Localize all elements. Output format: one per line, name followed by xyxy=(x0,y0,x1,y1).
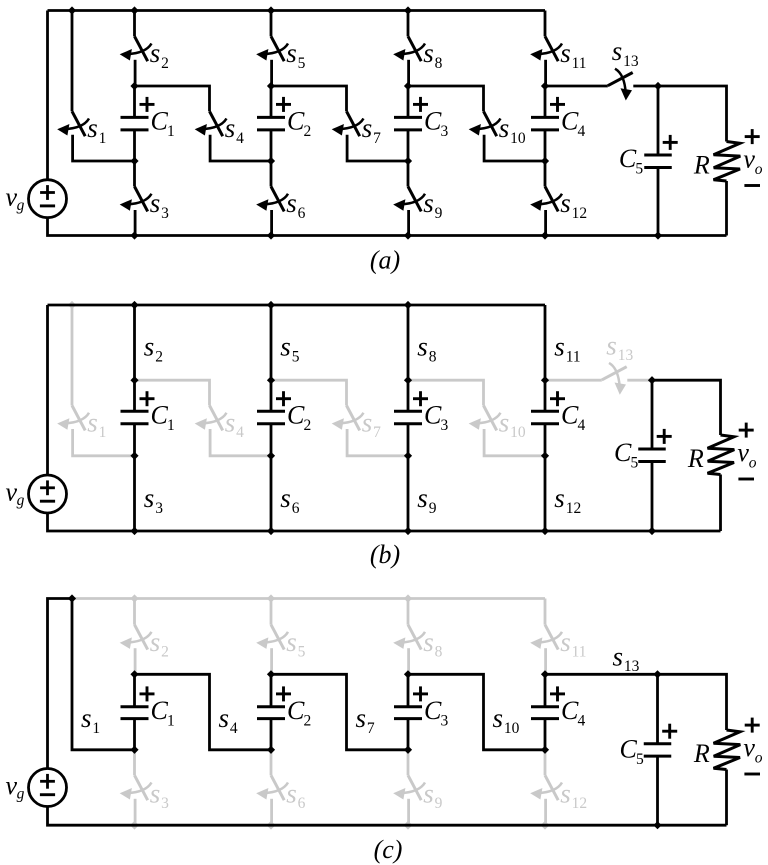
node bottom rail C4 (a) xyxy=(541,231,549,239)
svg-text:8: 8 xyxy=(435,55,443,72)
wire s11 bottom lead (a) xyxy=(544,60,547,86)
wire s12 top lead (a) xyxy=(544,161,547,187)
wire s7 bottom lead (a) xyxy=(347,135,408,161)
wire s2 closed + C1 column (b) xyxy=(133,305,136,411)
label s13 (c) xyxy=(613,641,640,675)
polarity plus C3 (c) xyxy=(413,686,428,701)
node bottom rail C1 (b) xyxy=(130,527,138,535)
node C4 bottom (c) xyxy=(541,746,549,754)
svg-text:g: g xyxy=(17,786,25,803)
polarity plus vo (a) xyxy=(745,129,760,144)
node C4 bottom (b) xyxy=(541,452,549,460)
label s3 (c) xyxy=(150,778,169,812)
svg-text:10: 10 xyxy=(510,130,526,147)
wire R top lead (c) xyxy=(658,674,727,730)
svg-text:s: s xyxy=(356,703,367,733)
label C5 (c) xyxy=(620,735,645,769)
node C3 bottom (c) xyxy=(404,746,412,754)
svg-text:3: 3 xyxy=(441,417,449,434)
node top rail C2 (a) xyxy=(267,6,275,14)
svg-text:C: C xyxy=(620,735,638,764)
label s9 (a) xyxy=(423,188,442,222)
switch s3 xyxy=(120,187,152,212)
svg-text:13: 13 xyxy=(624,658,640,675)
label s7 (a) xyxy=(362,113,381,147)
svg-text:s: s xyxy=(144,483,155,513)
label s2 (b) xyxy=(144,332,163,366)
node bottom rail C4 open (c) xyxy=(541,821,550,830)
switch s10 xyxy=(469,111,501,136)
wire C3 bottom lead (a) xyxy=(407,130,410,161)
wire C2 bottom lead (a) xyxy=(270,130,273,161)
resistor R (b) xyxy=(708,435,735,475)
wire s10 top lead open (b) xyxy=(408,380,484,405)
wire s5 bottom lead (a) xyxy=(270,60,273,86)
wire s5 bottom lead open (c) xyxy=(270,648,273,674)
capacitor C4 xyxy=(531,117,559,129)
switch s2 open (c) xyxy=(120,625,152,650)
label s4 (a) xyxy=(225,113,244,147)
wire s3 bottom lead open (c) xyxy=(134,799,137,825)
svg-text:C: C xyxy=(561,696,579,725)
svg-text:12: 12 xyxy=(572,205,588,222)
svg-text:s: s xyxy=(81,703,92,733)
wire C3 bottom lead (c) xyxy=(407,719,410,750)
node top rail C3 open (c) xyxy=(404,594,412,602)
svg-text:13: 13 xyxy=(623,53,639,70)
label vo (c) xyxy=(743,733,762,766)
label s2 (c) xyxy=(150,627,169,661)
switch s11 open (c) xyxy=(530,625,562,650)
wire vg branch (a) xyxy=(46,11,49,180)
wire top rail open (c) xyxy=(72,597,545,600)
wire s2 bottom lead open (c) xyxy=(134,648,137,674)
label vg (c) xyxy=(6,771,25,803)
node C5 top (c) xyxy=(653,670,661,678)
wire top rail (a) xyxy=(48,9,546,12)
svg-text:s: s xyxy=(613,641,624,671)
svg-text:g: g xyxy=(17,197,25,214)
node C1 bottom (a) xyxy=(130,157,138,165)
svg-text:s: s xyxy=(423,627,434,657)
capacitor C1 (b) xyxy=(121,411,149,423)
svg-text:s: s xyxy=(554,332,565,362)
node bottom rail C2 open (c) xyxy=(267,821,276,830)
svg-text:s: s xyxy=(499,407,510,437)
wire C4 top lead (c) xyxy=(544,674,547,707)
switch s1 open (b) xyxy=(57,406,89,431)
label vg (a) xyxy=(6,182,25,214)
svg-text:s: s xyxy=(150,778,161,808)
svg-text:s: s xyxy=(554,483,565,513)
svg-text:4: 4 xyxy=(236,130,244,147)
polarity plus C2 (c) xyxy=(276,686,291,701)
capacitor C2 (b) xyxy=(257,411,285,423)
wire s4 bottom lead (a) xyxy=(210,135,271,161)
wire s13 right lead (a) xyxy=(633,85,658,88)
node bottom rail C2 (a) xyxy=(267,231,275,239)
label s10 (b) xyxy=(499,407,526,441)
svg-text:5: 5 xyxy=(631,455,639,472)
switch s10 open (b) xyxy=(469,406,501,431)
label s2 (a) xyxy=(150,38,169,72)
svg-text:3: 3 xyxy=(441,123,449,140)
wire C4 bottom lead (a) xyxy=(544,130,547,161)
polarity plus C4 (a) xyxy=(550,97,565,112)
label s5 (c) xyxy=(286,627,305,661)
wire s8 bottom lead open (c) xyxy=(407,648,410,674)
svg-text:10: 10 xyxy=(504,720,520,737)
node s1 top (a) xyxy=(68,6,76,14)
label s11 (a) xyxy=(560,38,586,72)
node C5 bottom (b) xyxy=(648,527,656,535)
label vo (a) xyxy=(743,144,762,177)
svg-text:s: s xyxy=(560,627,571,657)
svg-text:11: 11 xyxy=(572,55,587,72)
svg-text:6: 6 xyxy=(292,500,300,517)
label s4 (c) xyxy=(219,703,238,737)
label s1 (c) xyxy=(81,703,100,737)
svg-text:13: 13 xyxy=(618,347,634,364)
wire C1 bottom lead (a) xyxy=(133,130,136,161)
wire s10 closed (c) xyxy=(408,674,545,750)
svg-text:2: 2 xyxy=(155,349,163,366)
polarity plus C3 (b) xyxy=(413,391,428,406)
wire s13 left lead open (b) xyxy=(545,379,602,382)
label C4 (a) xyxy=(561,107,586,141)
wire s10 bottom lead open (b) xyxy=(484,429,545,456)
label s12 (a) xyxy=(560,188,587,222)
label s4 (b) xyxy=(225,407,244,441)
wire R bottom lead (b) xyxy=(719,475,722,532)
node C2 bottom (c) xyxy=(267,746,275,754)
polarity plus C2 (b) xyxy=(276,391,291,406)
polarity plus C1 (b) xyxy=(140,391,155,406)
wire C4 top lead (a) xyxy=(544,86,547,117)
wire C4 bottom lead (c) xyxy=(544,719,547,750)
switch s13 open (b) xyxy=(602,363,627,395)
label s1 (b) xyxy=(87,407,106,441)
node top rail C2 open (c) xyxy=(267,594,275,602)
wire C1 top lead (c) xyxy=(133,674,136,707)
polarity plus C4 (b) xyxy=(550,391,565,406)
wire C5 bottom lead (a) xyxy=(657,167,660,235)
svg-text:o: o xyxy=(755,749,763,766)
svg-text:8: 8 xyxy=(429,349,437,366)
wire C5 top lead (c) xyxy=(656,674,659,743)
wire C3 top lead (c) xyxy=(407,674,410,707)
wire bottom rail (b) xyxy=(48,513,721,531)
wire C2 top lead (c) xyxy=(270,674,273,707)
svg-text:s: s xyxy=(225,113,236,143)
svg-text:s: s xyxy=(560,778,571,808)
label C5 (a) xyxy=(619,144,644,178)
switch s12 xyxy=(530,187,562,212)
wire s13 left lead (a) xyxy=(545,85,608,88)
svg-text:9: 9 xyxy=(435,205,443,222)
label C2 (a) xyxy=(287,107,311,141)
source vg (a) xyxy=(29,180,67,218)
svg-text:C: C xyxy=(151,107,169,136)
resistor R xyxy=(714,142,741,182)
wire s12 bottom lead (a) xyxy=(544,210,547,236)
node C1 top (a) xyxy=(130,82,138,90)
svg-text:s: s xyxy=(499,113,510,143)
node bottom rail C2 (b) xyxy=(267,527,275,535)
node C4 top (c) xyxy=(541,670,549,678)
svg-text:3: 3 xyxy=(441,713,449,730)
node C2 top (a) xyxy=(267,82,275,90)
label C1 (b) xyxy=(151,401,175,435)
wire s1 to C1 bottom (a) xyxy=(73,135,135,161)
svg-text:1: 1 xyxy=(167,123,175,140)
svg-text:s: s xyxy=(423,188,434,218)
wire s2 top lead open (c) xyxy=(133,599,136,625)
wire s10 top lead (a) xyxy=(408,86,484,111)
svg-text:C: C xyxy=(424,401,442,430)
wire C1 top lead (a) xyxy=(133,86,136,117)
polarity plus C2 (a) xyxy=(276,97,291,112)
capacitor C5 (b) xyxy=(638,449,666,461)
node top rail C2 (b) xyxy=(267,301,275,309)
svg-text:v: v xyxy=(743,733,755,762)
node top rail C1 (a) xyxy=(130,6,138,14)
label s9 (c) xyxy=(423,778,442,812)
wire s8 top lead (a) xyxy=(407,11,410,37)
svg-text:4: 4 xyxy=(230,720,238,737)
wire s9 closed column (b) xyxy=(407,424,410,531)
label s5 (a) xyxy=(286,38,305,72)
svg-text:9: 9 xyxy=(435,795,443,812)
capacitor C5 (c) xyxy=(644,744,672,756)
label C3 (a) xyxy=(424,107,449,141)
wire C5 bottom lead (b) xyxy=(651,461,654,531)
label s5 (b) xyxy=(280,332,299,366)
node s1 top rail open (b) xyxy=(68,301,76,309)
label s3 (a) xyxy=(150,188,169,222)
capacitor C4 (b) xyxy=(531,411,559,423)
wire s3 top lead (a) xyxy=(133,161,136,187)
label s1 (a) xyxy=(87,113,106,147)
wire s12 bottom lead open (c) xyxy=(544,799,547,825)
wire R top lead (a) xyxy=(658,86,727,142)
svg-text:o: o xyxy=(749,454,757,471)
node top rail C1 open (c) xyxy=(130,594,138,602)
switch s12 open (c) xyxy=(530,775,562,800)
wire s12 top lead open (c) xyxy=(544,750,547,776)
polarity minus vo (a) xyxy=(744,184,760,187)
svg-text:7: 7 xyxy=(373,424,381,441)
label C3 (b) xyxy=(424,401,449,435)
node C1 bottom (b) xyxy=(130,452,138,460)
svg-text:1: 1 xyxy=(167,713,175,730)
wire s10 bottom lead (a) xyxy=(484,135,545,161)
svg-text:R: R xyxy=(693,151,710,180)
wire bottom rail (c) xyxy=(48,807,727,826)
svg-text:C: C xyxy=(614,438,632,467)
svg-text:v: v xyxy=(737,438,749,467)
svg-text:s: s xyxy=(423,38,434,68)
label s12 (c) xyxy=(560,778,587,812)
svg-text:10: 10 xyxy=(510,424,526,441)
svg-text:1: 1 xyxy=(92,720,100,737)
switch s8 xyxy=(393,36,425,61)
wire s1 top lead (a) xyxy=(71,11,74,112)
wire s7 closed (c) xyxy=(271,674,408,750)
svg-text:s: s xyxy=(87,407,98,437)
wire s1 top lead open (b) xyxy=(71,305,74,406)
svg-text:s: s xyxy=(286,188,297,218)
svg-text:s: s xyxy=(225,407,236,437)
label C1 (a) xyxy=(151,107,175,141)
svg-text:C: C xyxy=(561,107,579,136)
source vg (b) xyxy=(29,475,67,513)
svg-text:C: C xyxy=(287,401,305,430)
svg-text:s: s xyxy=(219,703,230,733)
capacitor C2 (c) xyxy=(257,707,285,719)
wire s7 bottom lead open (b) xyxy=(347,429,408,456)
svg-text:(a): (a) xyxy=(370,246,400,275)
wire s12 closed column (b) xyxy=(544,424,547,531)
svg-text:C: C xyxy=(561,401,579,430)
node C2 top (c) xyxy=(267,670,275,678)
wire s7 top lead open (b) xyxy=(271,380,347,405)
svg-text:6: 6 xyxy=(298,795,306,812)
svg-text:s: s xyxy=(280,483,291,513)
svg-text:2: 2 xyxy=(161,644,169,661)
svg-text:s: s xyxy=(286,627,297,657)
svg-text:s: s xyxy=(417,332,428,362)
svg-text:2: 2 xyxy=(304,417,312,434)
node C1 top (c) xyxy=(130,670,138,678)
node C5 top (b) xyxy=(648,376,656,384)
polarity plus C4 (c) xyxy=(550,686,565,701)
wire s8 top lead open (c) xyxy=(407,599,410,625)
wire s5 top lead open (c) xyxy=(270,599,273,625)
wire s9 bottom lead open (c) xyxy=(407,799,410,825)
wire s9 top lead (a) xyxy=(407,161,410,187)
svg-text:o: o xyxy=(755,161,763,178)
svg-text:4: 4 xyxy=(578,123,586,140)
capacitor C3 (b) xyxy=(394,411,422,423)
svg-text:2: 2 xyxy=(304,713,312,730)
svg-text:s: s xyxy=(417,483,428,513)
switch s7 open (b) xyxy=(332,406,364,431)
label C3 (c) xyxy=(424,696,449,730)
node bottom rail C3 (a) xyxy=(404,231,412,239)
wire R top lead (b) xyxy=(652,380,721,435)
svg-text:C: C xyxy=(424,107,442,136)
source vg (c) xyxy=(29,769,67,807)
wire s4 top lead (a) xyxy=(135,86,210,111)
svg-text:4: 4 xyxy=(236,424,244,441)
label s8 (c) xyxy=(423,627,442,661)
svg-text:7: 7 xyxy=(373,130,381,147)
svg-text:11: 11 xyxy=(572,644,587,661)
node C1 top (b) xyxy=(130,376,138,384)
label s10 (a) xyxy=(499,113,526,147)
label s11 (c) xyxy=(560,627,586,661)
wire s8 closed + C3 column (b) xyxy=(407,305,410,411)
label vo (b) xyxy=(737,438,756,471)
switch s4 open (b) xyxy=(195,406,227,431)
capacitor C1 (c) xyxy=(121,707,149,719)
wire C3 top lead (a) xyxy=(407,86,410,117)
node top rail C1 (b) xyxy=(130,301,138,309)
svg-text:v: v xyxy=(743,144,755,173)
wire s11 top lead (a) xyxy=(544,11,547,37)
capacitor C3 xyxy=(394,117,422,129)
switch s6 xyxy=(256,187,288,212)
svg-text:4: 4 xyxy=(578,713,586,730)
switch s1 xyxy=(57,111,89,136)
wire C1 bottom lead (c) xyxy=(133,719,136,750)
switch s5 open (c) xyxy=(256,625,288,650)
capacitor C5 xyxy=(644,155,672,167)
svg-text:s: s xyxy=(560,38,571,68)
svg-text:s: s xyxy=(286,778,297,808)
svg-text:s: s xyxy=(280,332,291,362)
node C2 bottom (a) xyxy=(267,157,275,165)
svg-text:s: s xyxy=(286,38,297,68)
svg-text:(c): (c) xyxy=(374,835,403,864)
node top rail C3 (a) xyxy=(404,6,412,14)
wire vg branch (b) xyxy=(46,305,49,475)
svg-text:C: C xyxy=(424,696,442,725)
capacitor C3 (c) xyxy=(394,707,422,719)
node bottom rail C4 (b) xyxy=(541,527,549,535)
wire C5 top lead (b) xyxy=(651,380,654,449)
wire s2 top lead (a) xyxy=(133,11,136,37)
wire top rail (b) xyxy=(48,304,546,307)
label s6 (a) xyxy=(286,188,305,222)
label s11 (b) xyxy=(554,332,580,366)
svg-text:s: s xyxy=(150,188,161,218)
svg-text:3: 3 xyxy=(161,205,169,222)
wire C2 top lead (a) xyxy=(270,86,273,117)
svg-text:3: 3 xyxy=(155,500,163,517)
node C5 bottom (a) xyxy=(654,231,662,239)
wire s3 closed column (b) xyxy=(133,424,136,531)
wire s4 closed (c) xyxy=(135,674,272,750)
label s13 (b) xyxy=(606,330,633,364)
label s13 (a) xyxy=(612,36,639,70)
switch s6 open (c) xyxy=(256,775,288,800)
svg-text:1: 1 xyxy=(99,130,107,147)
wire s5 top lead (a) xyxy=(270,11,273,37)
polarity plus C1 (c) xyxy=(140,686,155,701)
svg-text:s: s xyxy=(150,38,161,68)
node bottom rail C3 open (c) xyxy=(404,821,413,830)
svg-text:C: C xyxy=(287,696,305,725)
wire R bottom lead (c) xyxy=(725,770,728,826)
label s7 (c) xyxy=(356,703,375,737)
wire s2 bottom lead (a) xyxy=(134,60,137,86)
node C4 bottom (a) xyxy=(541,157,549,165)
node C4 top (a) xyxy=(541,82,549,90)
label s3 (b) xyxy=(144,483,163,517)
switch s2 xyxy=(120,36,152,61)
svg-text:12: 12 xyxy=(566,500,582,517)
svg-text:s: s xyxy=(362,113,373,143)
svg-text:s: s xyxy=(612,36,623,66)
wire s13 right lead open (b) xyxy=(627,379,652,382)
wire s4 top lead open (b) xyxy=(135,380,210,405)
switch s11 xyxy=(530,36,562,61)
label s12 (b) xyxy=(554,483,581,517)
node C3 bottom (b) xyxy=(404,452,412,460)
svg-text:12: 12 xyxy=(572,795,588,812)
